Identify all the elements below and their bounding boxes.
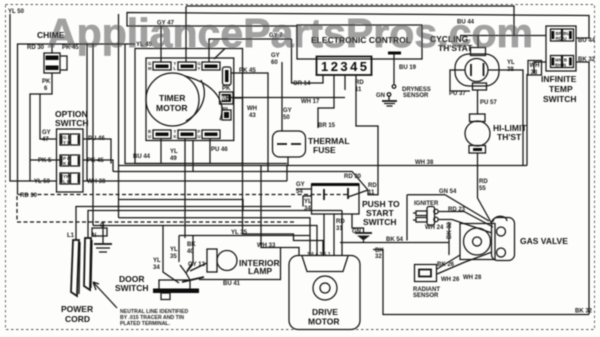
svg-text:WH: WH	[247, 106, 257, 112]
svg-text:BN: BN	[222, 106, 228, 111]
svg-text:BK: BK	[187, 242, 196, 248]
wire RD 23	[438, 212, 493, 228]
svg-text:FUSE: FUSE	[313, 145, 336, 155]
svg-text:BU 44: BU 44	[457, 20, 475, 26]
svg-text:YL: YL	[507, 60, 515, 66]
terminals row2	[60, 155, 69, 166]
cycling thermostat S4	[430, 34, 499, 90]
thermal fuse F1	[273, 131, 350, 166]
svg-text:POWER: POWER	[61, 304, 93, 314]
wire chime branch down	[40, 94, 57, 139]
chime CH1	[27, 30, 79, 181]
svg-text:54: 54	[296, 189, 303, 195]
svg-text:SWITCH: SWITCH	[363, 217, 397, 227]
wire GY 12	[190, 263, 207, 271]
wire timer bottom drops	[160, 139, 162, 164]
push to start switch S3	[312, 183, 401, 227]
wire GY 47 top run	[127, 13, 589, 39]
svg-text:50: 50	[283, 115, 290, 121]
svg-text:43: 43	[249, 113, 256, 119]
svg-text:IGNITER: IGNITER	[414, 201, 439, 207]
svg-text:BU 19: BU 19	[399, 65, 417, 71]
svg-text:MOTOR: MOTOR	[156, 103, 187, 113]
svg-text:YL: YL	[153, 258, 161, 264]
wire BU 41	[199, 248, 281, 280]
svg-text:GY: GY	[283, 108, 292, 114]
svg-text:GY 12: GY 12	[188, 262, 206, 268]
svg-text:WH 33: WH 33	[257, 243, 276, 249]
svg-text:U: U	[148, 134, 151, 139]
svg-text:RD U: RD U	[556, 36, 567, 41]
bottom connector 3	[202, 130, 220, 139]
svg-text:RD: RD	[479, 179, 488, 185]
hi-limit thermostat S5	[465, 114, 527, 153]
svg-text:WH 24: WH 24	[425, 225, 444, 231]
wire pin stubs	[292, 39, 324, 83]
svg-text:BU 44: BU 44	[133, 154, 151, 160]
wire BK 54	[340, 222, 449, 255]
svg-text:WH 38: WH 38	[415, 160, 434, 166]
wire left YL 50 drop	[10, 14, 57, 181]
svg-text:K K: K K	[63, 161, 72, 166]
svg-text:49: 49	[170, 156, 177, 162]
svg-text:MOTOR: MOTOR	[308, 317, 339, 327]
igniter E1	[413, 201, 444, 231]
svg-text:PK: PK	[42, 79, 51, 85]
svg-text:GN: GN	[352, 229, 361, 235]
wire RD 30 dashed console	[17, 195, 347, 223]
svg-text:BK 32: BK 32	[578, 57, 596, 63]
svg-text:PK: PK	[222, 86, 231, 92]
svg-text:OR 14: OR 14	[293, 81, 311, 87]
wire WH 38 label box	[528, 61, 542, 76]
svg-text:PK 5: PK 5	[38, 158, 52, 164]
svg-text:2 6 4 3 5 1: 2 6 4 3 5 1	[307, 252, 331, 258]
svg-text:GY 7: GY 7	[269, 33, 283, 39]
infinite temp switch S6	[541, 26, 577, 104]
svg-text:RD 30: RD 30	[344, 174, 362, 180]
svg-text:L: L	[174, 66, 177, 71]
svg-text:INFINITE: INFINITE	[541, 74, 577, 84]
svg-text:GY: GY	[271, 53, 280, 59]
electronic control U1	[297, 25, 422, 75]
svg-text:WH 17: WH 17	[301, 99, 320, 105]
wire WH 24	[438, 220, 492, 234]
svg-text:M: M	[148, 66, 152, 71]
wire RD 31	[333, 214, 335, 256]
svg-text:PK 45: PK 45	[62, 45, 79, 51]
svg-text:L H: L H	[63, 179, 70, 184]
wire N feed	[88, 211, 342, 239]
svg-text:L1: L1	[67, 233, 75, 239]
svg-text:RD 30: RD 30	[20, 193, 38, 199]
svg-text:DRIVE: DRIVE	[312, 307, 338, 317]
svg-text:SENSOR: SENSOR	[403, 93, 429, 99]
wire PK45 from timer	[231, 73, 268, 172]
svg-text:YL: YL	[304, 199, 312, 205]
drive motor M2	[289, 252, 360, 330]
wire L1 feed	[76, 207, 291, 241]
gas valve L1L2	[460, 216, 568, 260]
radiant sensor RT2	[413, 265, 440, 300]
svg-text:SWITCH: SWITCH	[115, 283, 149, 293]
svg-text:BU 44: BU 44	[578, 38, 596, 44]
power cord P1	[61, 222, 112, 324]
svg-text:GY: GY	[42, 130, 51, 136]
wire BK 26 / WH 26 from radiant sensor	[437, 255, 460, 269]
wire PU 57 to hi-limit	[477, 90, 479, 114]
svg-text:55: 55	[479, 186, 486, 192]
svg-text:TIMER: TIMER	[159, 93, 185, 103]
svg-text:RD 23: RD 23	[448, 207, 466, 213]
wire PTS left drop	[323, 214, 325, 256]
svg-text:RD: RD	[355, 80, 364, 86]
wire staircase into motor	[243, 98, 324, 256]
top connector 2	[178, 62, 196, 70]
side connector PK	[223, 67, 232, 85]
svg-text:SWITCH: SWITCH	[543, 94, 577, 104]
svg-text:BK 54: BK 54	[386, 237, 404, 243]
svg-text:K: K	[174, 134, 177, 139]
svg-text:PU 57: PU 57	[480, 100, 497, 106]
wire console bottom	[125, 44, 287, 164]
svg-text:YL: YL	[170, 149, 178, 155]
svg-text:11: 11	[355, 87, 362, 93]
svg-text:YL 35: YL 35	[231, 230, 248, 236]
wire BK 32 right side	[576, 62, 589, 315]
ground GN near PTS	[352, 214, 364, 233]
svg-text:PU 46: PU 46	[211, 147, 228, 153]
note neutral line	[93, 282, 117, 308]
svg-text:TEMP: TEMP	[549, 84, 573, 94]
ground terminal on U1	[388, 52, 401, 55]
svg-text:32: 32	[375, 254, 382, 260]
terminals row3	[60, 173, 69, 184]
svg-text:35: 35	[170, 254, 177, 260]
bottom connector 1	[153, 130, 171, 139]
wire YL 38 drop	[488, 70, 523, 166]
svg-text:CHIME: CHIME	[37, 30, 65, 40]
door switch S1	[115, 264, 204, 300]
wire WH 17	[226, 97, 345, 99]
wire WH 38 long horizontal	[119, 74, 528, 166]
svg-text:YL 45: YL 45	[136, 42, 153, 48]
wire YL 34 left of PTS	[303, 196, 311, 207]
wire BK 40	[187, 236, 193, 272]
option switch S2	[34, 109, 111, 192]
svg-text:PU 37: PU 37	[449, 91, 466, 97]
wire lamp box top YL 35	[179, 236, 310, 263]
svg-text:CORD: CORD	[65, 314, 90, 324]
svg-text:YL: YL	[170, 247, 178, 253]
terminals row1	[60, 134, 69, 145]
svg-text:47: 47	[42, 137, 49, 143]
svg-text:60: 60	[271, 60, 278, 66]
svg-text:GY 47: GY 47	[157, 21, 175, 27]
svg-text:RD: RD	[336, 219, 345, 225]
svg-text:BH N: BH N	[555, 63, 566, 68]
svg-text:40: 40	[187, 249, 194, 255]
wire left verticals from console	[92, 44, 94, 226]
svg-text:U: U	[198, 134, 201, 139]
svg-text:GN 54: GN 54	[439, 189, 457, 195]
svg-text:PLATED TERMINAL.: PLATED TERMINAL.	[120, 321, 171, 327]
svg-text:RD: RD	[368, 183, 377, 189]
wire RD 55 down	[478, 153, 493, 224]
svg-text:SWITCH: SWITCH	[55, 118, 89, 128]
bottom connector 2	[178, 130, 196, 139]
svg-text:Y: Y	[198, 66, 201, 71]
svg-text:Y U: Y U	[63, 140, 70, 145]
wire WH43 from timer	[233, 97, 243, 99]
svg-text:RD 30: RD 30	[27, 45, 45, 51]
svg-text:SENSOR: SENSOR	[413, 293, 439, 299]
svg-text:TH'ST: TH'ST	[497, 132, 522, 142]
wire to ITS	[460, 35, 546, 37]
wire GN 54	[407, 195, 489, 221]
wire WH 33	[261, 236, 299, 257]
svg-text:PK 45: PK 45	[239, 68, 256, 74]
svg-text:BR 15: BR 15	[318, 123, 336, 129]
side connector BN	[222, 110, 231, 120]
wire BR 15 drop	[318, 90, 334, 128]
svg-text:34: 34	[153, 265, 160, 271]
wire RD 30 horizontal	[113, 172, 368, 191]
wire PK5 row2 left	[30, 159, 60, 161]
dryness sensor RT1	[376, 55, 431, 107]
svg-text:1 2 3 4 5: 1 2 3 4 5	[321, 59, 367, 74]
interior lamp DS1	[207, 249, 280, 276]
svg-text:BK 32: BK 32	[575, 309, 593, 315]
svg-text:LAMP: LAMP	[248, 266, 272, 276]
top connector 1	[153, 62, 171, 70]
svg-text:BK 26: BK 26	[437, 262, 455, 268]
wire GY50 drop to thermal fuse	[281, 62, 283, 131]
svg-text:GN: GN	[376, 93, 385, 99]
svg-text:BU 41: BU 41	[223, 281, 241, 287]
svg-text:BK 32: BK 32	[447, 221, 453, 239]
svg-text:ELECTRONIC CONTROL: ELECTRONIC CONTROL	[311, 35, 411, 45]
svg-text:38: 38	[507, 67, 514, 73]
timer motor M1	[135, 42, 243, 164]
svg-text:WH 28: WH 28	[463, 275, 482, 281]
svg-text:WH 26: WH 26	[441, 277, 460, 283]
svg-text:GAS VALVE: GAS VALVE	[520, 236, 568, 246]
gas valve enclosure box	[406, 195, 408, 241]
svg-text:GY: GY	[296, 182, 305, 188]
svg-text:TH'STAT: TH'STAT	[438, 43, 473, 53]
wire timer top drops	[160, 26, 162, 62]
wire console top	[18, 44, 136, 195]
wire BU 44 upper run	[186, 6, 514, 36]
side connector WH	[220, 92, 234, 104]
top connector 3	[202, 62, 220, 70]
wire PU 37 loop	[450, 70, 470, 91]
svg-text:PK 45: PK 45	[87, 158, 104, 164]
svg-text:WH 38: WH 38	[87, 179, 106, 185]
svg-text:YL 50: YL 50	[34, 179, 51, 185]
